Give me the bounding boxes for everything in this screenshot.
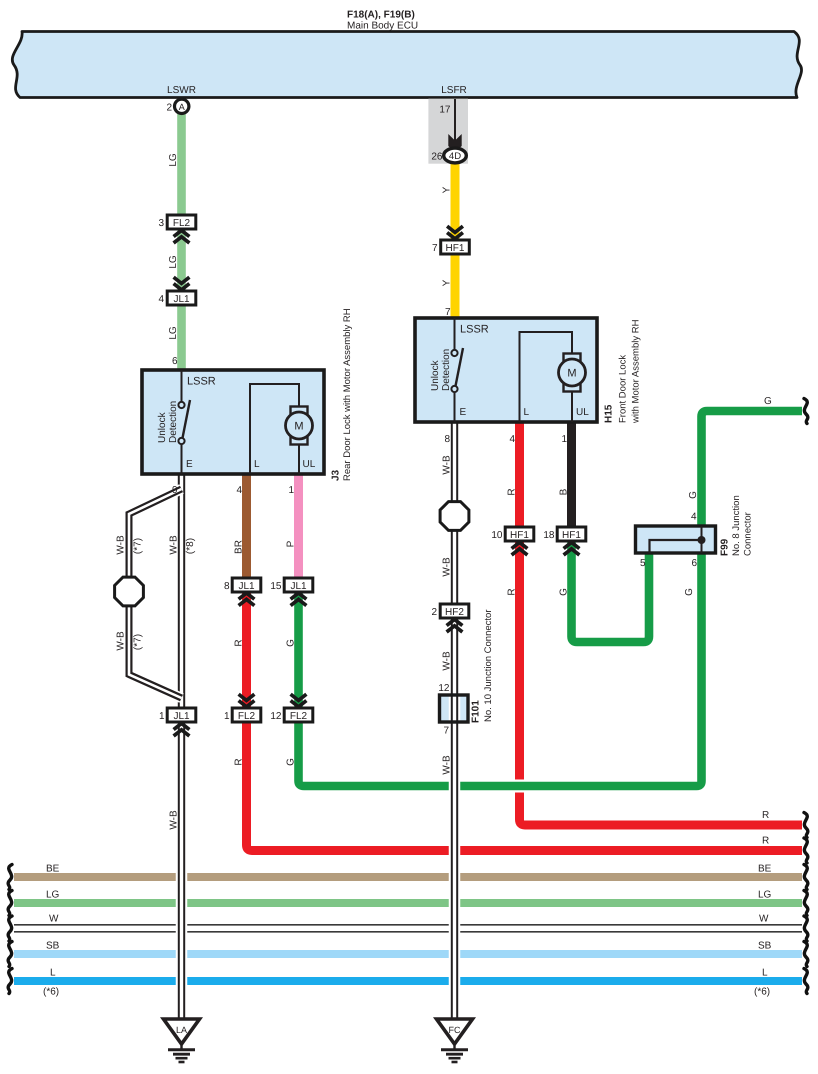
svg-text:7: 7	[432, 243, 438, 254]
svg-text:BE: BE	[46, 864, 60, 875]
svg-text:W-B: W-B	[442, 455, 453, 475]
bus wire BE	[14, 873, 802, 881]
svg-text:with Motor Assembly RH: with Motor Assembly RH	[631, 319, 642, 424]
svg-text:15: 15	[270, 581, 282, 592]
svg-text:FC: FC	[449, 1025, 461, 1035]
svg-text:UL: UL	[303, 459, 316, 470]
wire G from HF1 pin 18 to F99 pin 5	[572, 541, 650, 642]
svg-text:F101: F101	[471, 700, 482, 723]
svg-text:7: 7	[445, 307, 451, 318]
shaded region at LSFR output	[428, 99, 468, 164]
svg-text:JL1: JL1	[290, 581, 307, 592]
page break curls right side	[804, 399, 808, 994]
ECU pin 2 connector A circle	[175, 99, 189, 113]
svg-text:W: W	[759, 914, 769, 925]
svg-text:Connector: Connector	[743, 512, 754, 556]
wire LG from ECU pin 2 to door lock pin 6	[177, 113, 186, 370]
svg-text:LSFR: LSFR	[441, 85, 467, 96]
front door lock with motor assembly RH box H15	[415, 318, 597, 422]
svg-text:LA: LA	[176, 1025, 187, 1035]
svg-text:10: 10	[491, 530, 503, 541]
splice octagon on W-B middle	[440, 502, 469, 531]
svg-text:LSSR: LSSR	[187, 376, 216, 388]
svg-text:W-B: W-B	[169, 535, 180, 555]
wire W-B branch (*7) loop with octagon	[129, 489, 182, 698]
svg-text:1: 1	[224, 711, 230, 722]
svg-text:18: 18	[543, 530, 555, 541]
svg-text:LG: LG	[758, 890, 772, 901]
bus wire L	[14, 977, 802, 985]
svg-text:Unlock: Unlock	[157, 411, 168, 443]
H15 internal wire L pin to motor	[520, 332, 573, 422]
svg-text:4: 4	[691, 512, 697, 523]
svg-text:12: 12	[270, 711, 282, 722]
svg-text:JL1: JL1	[173, 294, 190, 305]
svg-text:4D: 4D	[449, 151, 461, 162]
in-harness connector 4D oval pin 26	[444, 148, 467, 163]
svg-text:UL: UL	[576, 407, 589, 418]
svg-text:J3: J3	[331, 469, 342, 481]
wire R from front door lock pin 4	[515, 422, 524, 527]
svg-text:(*7): (*7)	[133, 634, 144, 650]
junction connector F99 box	[636, 526, 716, 553]
svg-text:HF2: HF2	[445, 607, 464, 618]
connector HF1 pin 18	[557, 527, 586, 541]
svg-text:W: W	[49, 914, 59, 925]
svg-text:12: 12	[438, 683, 450, 694]
svg-text:G: G	[764, 396, 772, 407]
connector FL2 pin 3	[167, 215, 196, 229]
svg-text:H15: H15	[604, 404, 615, 423]
svg-text:7: 7	[443, 726, 449, 737]
connector HF1 pin 7	[441, 240, 470, 254]
svg-text:Main Body ECU: Main Body ECU	[347, 21, 418, 32]
svg-text:M: M	[567, 368, 576, 380]
svg-text:8: 8	[444, 434, 450, 445]
svg-text:F99: F99	[720, 538, 731, 556]
svg-text:4: 4	[158, 294, 164, 305]
svg-text:4: 4	[236, 485, 242, 496]
F99 junction dot	[698, 536, 706, 544]
bus wire LG	[14, 899, 802, 907]
wire R from HF1 pin 10 down and right to page edge	[520, 541, 803, 825]
svg-text:R: R	[762, 836, 769, 847]
svg-text:R: R	[762, 810, 769, 821]
wire BR from door lock pin 4	[242, 474, 251, 578]
svg-text:M: M	[294, 421, 303, 433]
connector JL1 pin 4	[167, 291, 196, 305]
svg-text:No. 10 Junction Connector: No. 10 Junction Connector	[483, 610, 494, 722]
svg-text:3: 3	[158, 218, 164, 229]
svg-text:HF1: HF1	[446, 243, 465, 254]
wire B from front door lock pin 1	[567, 422, 576, 527]
svg-text:HF1: HF1	[510, 530, 529, 541]
svg-text:L: L	[254, 459, 260, 470]
svg-text:Y: Y	[442, 279, 453, 286]
rear door lock with motor assembly RH box J3	[142, 370, 324, 474]
svg-text:BR: BR	[234, 540, 245, 554]
F99 internal wire pin4 to pin6	[701, 526, 703, 553]
connector HF2 pin 2	[440, 604, 469, 618]
svg-text:E: E	[186, 459, 193, 470]
svg-text:2: 2	[431, 607, 437, 618]
svg-text:6: 6	[691, 558, 697, 569]
svg-text:G: G	[684, 588, 695, 596]
svg-text:L: L	[50, 968, 56, 979]
svg-text:4: 4	[509, 434, 515, 445]
svg-text:1: 1	[288, 485, 294, 496]
connector JL1 pin 8	[232, 578, 261, 592]
svg-text:BE: BE	[758, 864, 772, 875]
connector HF1 pin 10	[505, 527, 534, 541]
svg-text:Unlock: Unlock	[430, 359, 441, 391]
svg-text:W-B: W-B	[442, 651, 453, 671]
svg-text:(*6): (*6)	[754, 987, 770, 998]
connector FL2 pin 1	[232, 708, 261, 722]
svg-text:LG: LG	[46, 890, 60, 901]
arrow on LSFR wire	[448, 134, 461, 153]
svg-text:G: G	[286, 639, 297, 647]
svg-text:8: 8	[224, 581, 230, 592]
bus wire SB	[14, 950, 802, 958]
svg-text:R: R	[234, 639, 245, 646]
svg-text:HF1: HF1	[562, 530, 581, 541]
connector FL2 pin 12	[284, 708, 313, 722]
svg-text:R: R	[507, 488, 518, 495]
svg-text:(*7): (*7)	[133, 538, 144, 554]
svg-text:SB: SB	[758, 941, 772, 952]
junction connector F101 box border	[440, 695, 469, 722]
svg-text:A: A	[179, 102, 185, 112]
svg-text:W-B: W-B	[116, 631, 127, 651]
svg-text:LSSR: LSSR	[460, 324, 489, 336]
page break curls left side	[8, 865, 12, 994]
svg-text:Y: Y	[442, 186, 453, 193]
wire W-B middle from front door lock pin 8 to ground FC	[449, 422, 461, 1019]
svg-text:LG: LG	[168, 153, 179, 167]
ground FC	[437, 1019, 473, 1062]
connector JL1 pin 1	[167, 708, 196, 722]
svg-text:R: R	[234, 758, 245, 765]
F99 internal wire to pin 5	[650, 540, 702, 553]
svg-text:FL2: FL2	[238, 711, 256, 722]
Main Body ECU banner F18(A)/F19(B)	[12, 32, 801, 98]
svg-text:B: B	[559, 488, 570, 495]
J3 unlock detection switch	[178, 370, 190, 474]
wire W-B left main from pin 9 to ground LA	[176, 474, 188, 1019]
connector JL1 pin 15	[284, 578, 313, 592]
svg-text:26: 26	[431, 152, 443, 163]
svg-text:Detection: Detection	[441, 349, 452, 391]
H15 unlock detection switch	[451, 318, 463, 422]
svg-text:LG: LG	[168, 255, 179, 269]
svg-text:R: R	[507, 588, 518, 595]
bus wire W (double line)	[14, 924, 802, 926]
svg-text:P: P	[286, 540, 297, 547]
svg-text:LG: LG	[168, 326, 179, 340]
ground LA	[164, 1019, 200, 1062]
svg-text:G: G	[286, 758, 297, 766]
wire G from F99 pin 4 up and right to page edge	[702, 411, 803, 527]
junction connector F101 box fill	[440, 695, 469, 722]
svg-text:1: 1	[159, 711, 165, 722]
svg-text:(*6): (*6)	[43, 987, 59, 998]
wire Y from 4D to door lock pin 7	[451, 162, 460, 318]
svg-text:W-B: W-B	[116, 535, 127, 555]
splice octagon on W-B branch	[115, 577, 144, 606]
svg-text:Rear Door Lock with Motor Asse: Rear Door Lock with Motor Assembly RH	[342, 308, 353, 481]
svg-text:W-B: W-B	[169, 810, 180, 830]
svg-text:F18(A), F19(B): F18(A), F19(B)	[347, 10, 415, 21]
svg-text:1: 1	[561, 434, 567, 445]
svg-text:5: 5	[640, 558, 646, 569]
svg-text:Front Door Lock: Front Door Lock	[618, 355, 629, 423]
svg-text:Detection: Detection	[168, 401, 179, 443]
J3 internal wire L pin to motor	[250, 384, 299, 474]
svg-text:W-B: W-B	[442, 557, 453, 577]
svg-text:L: L	[762, 968, 768, 979]
svg-text:(*8): (*8)	[185, 538, 196, 554]
svg-text:L: L	[524, 407, 530, 418]
svg-text:FL2: FL2	[173, 218, 191, 229]
wire G casing	[299, 553, 702, 786]
svg-text:G: G	[559, 588, 570, 596]
svg-text:LSWR: LSWR	[167, 85, 196, 96]
svg-text:9: 9	[172, 485, 178, 496]
svg-text:SB: SB	[46, 941, 60, 952]
J3 motor M	[286, 407, 313, 475]
wire G from FL2 pin 12 up to F99 pin 6	[299, 552, 702, 786]
wire black from LSFR pin 17	[454, 99, 456, 141]
svg-text:6: 6	[172, 356, 178, 367]
svg-text:FL2: FL2	[290, 711, 308, 722]
wire P from door lock pin 1	[294, 474, 303, 578]
svg-text:G: G	[688, 491, 699, 499]
svg-text:E: E	[460, 407, 467, 418]
H15 motor M	[559, 354, 586, 423]
svg-text:JL1: JL1	[238, 581, 255, 592]
wire R from FL2 pin 1 down and right to page edge	[247, 592, 803, 851]
svg-text:No. 8 Junction: No. 8 Junction	[731, 495, 742, 556]
svg-text:17: 17	[439, 105, 451, 116]
svg-text:JL1: JL1	[173, 711, 190, 722]
svg-text:2: 2	[166, 103, 172, 114]
svg-text:W-B: W-B	[442, 755, 453, 775]
